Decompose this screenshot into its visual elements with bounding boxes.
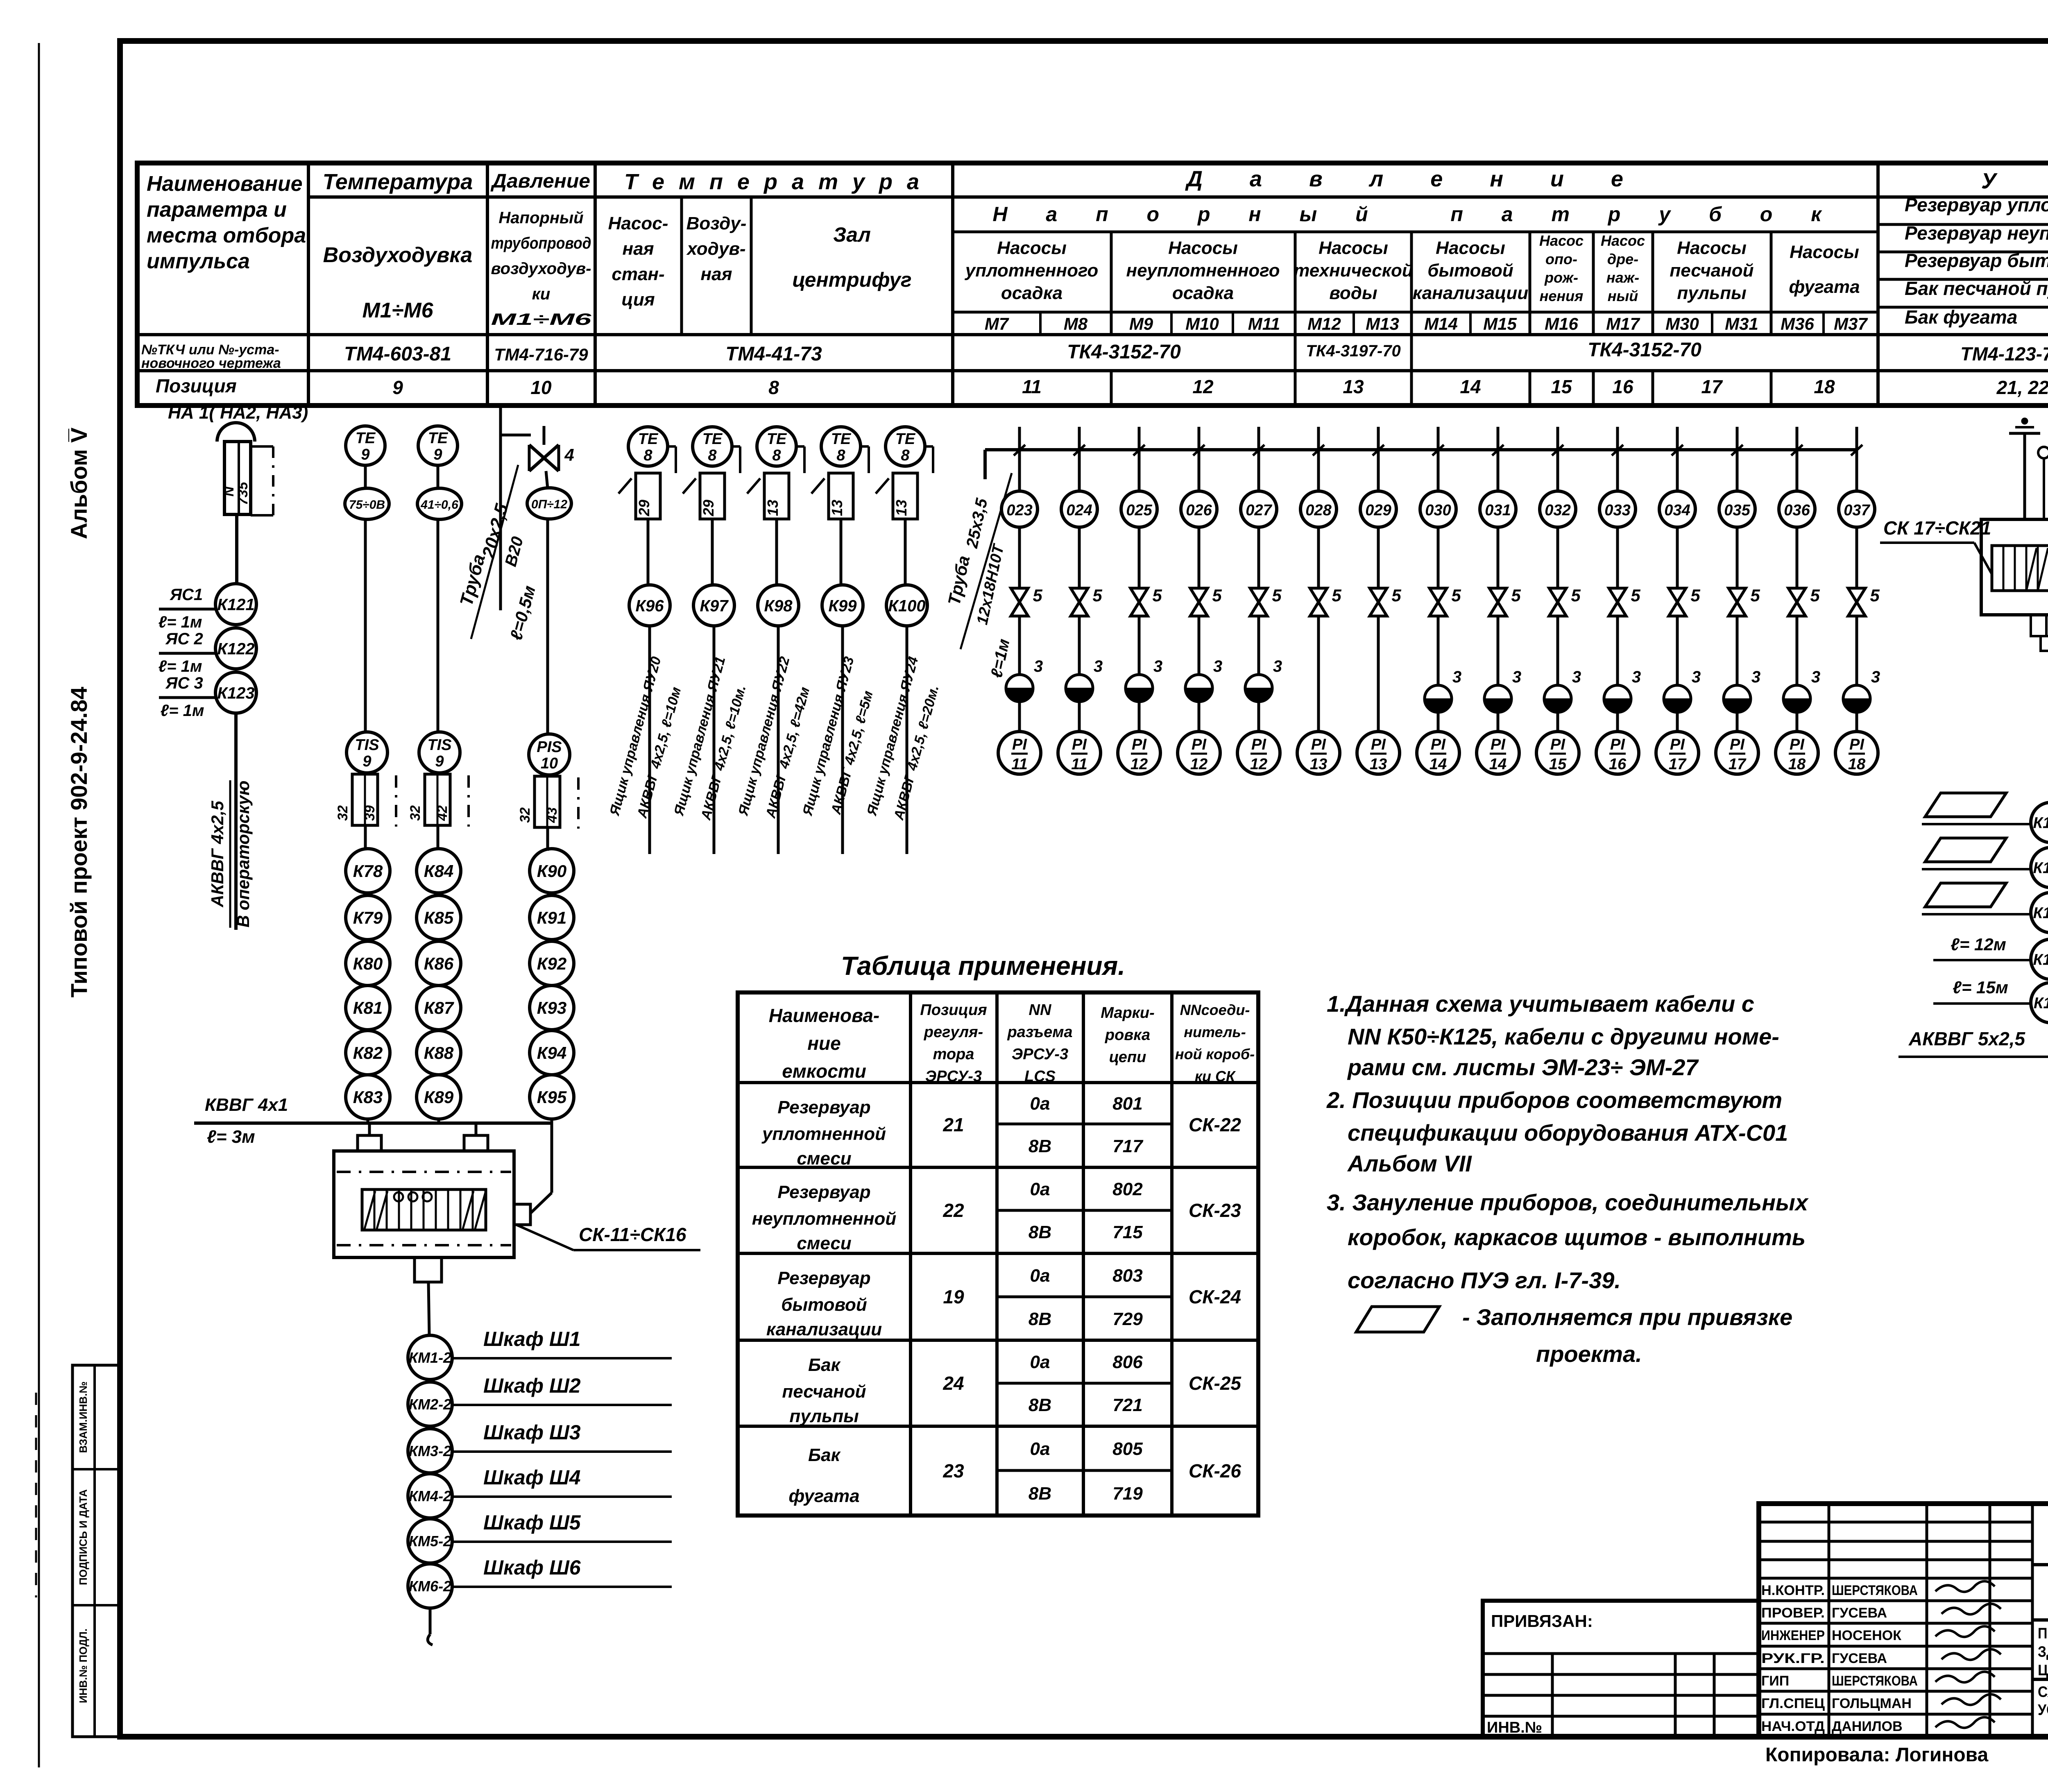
- wire YaS1 to K121: [159, 608, 215, 611]
- instrument TE9 column 1: [346, 426, 385, 465]
- table column line nasos stanciya: [680, 197, 683, 335]
- svg-text:Наименование: Наименование: [147, 172, 303, 196]
- svg-text:23: 23: [942, 1460, 964, 1482]
- svg-text:3: 3: [1512, 668, 1521, 686]
- wire to valve: [1497, 527, 1500, 588]
- svg-text:3: 3: [1094, 657, 1103, 675]
- wire box to K9x: [904, 519, 907, 585]
- svg-text:11: 11: [1022, 376, 1042, 397]
- svg-text:ки СК: ки СК: [1195, 1068, 1236, 1085]
- position circle 027: [1241, 491, 1277, 527]
- svg-text:спецификации оборудования АТХ-: спецификации оборудования АТХ-С01: [1348, 1120, 1788, 1146]
- svg-text:НА 1( НА2, НА3): НА 1( НА2, НА3): [168, 403, 308, 423]
- wire bus to circle 035: [1736, 450, 1739, 491]
- svg-text:TIS: TIS: [355, 736, 379, 754]
- svg-text:ТМ4-603-81: ТМ4-603-81: [344, 343, 451, 365]
- svg-text:028: 028: [1305, 502, 1332, 519]
- svg-text:719: 719: [1112, 1484, 1143, 1504]
- svg-text:13: 13: [1343, 376, 1364, 397]
- svg-text:0П÷12: 0П÷12: [531, 498, 567, 511]
- signature squiggle 3: [1935, 1626, 1995, 1637]
- svg-text:опо-: опо-: [1545, 251, 1577, 267]
- position circle 033: [1599, 491, 1636, 527]
- impulse column 024 stub above bus: [1078, 427, 1081, 450]
- svg-text:8В: 8В: [1029, 1222, 1051, 1242]
- pressure gauge PI 18: [1835, 732, 1878, 774]
- svg-text:М11: М11: [1248, 314, 1280, 333]
- svg-text:16: 16: [1612, 376, 1633, 397]
- wire separator to PI: [1616, 712, 1619, 732]
- cable circle К87: [417, 985, 461, 1030]
- application table sub row lines: [997, 1123, 1172, 1126]
- svg-text:В операторскую: В операторскую: [233, 781, 253, 928]
- svg-text:Шкаф Ш6: Шкаф Ш6: [483, 1556, 581, 1579]
- SK17 box inner strip: [1992, 546, 2048, 591]
- wire to shkaf Sh4: [452, 1495, 672, 1498]
- svg-text:фугата: фугата: [788, 1486, 859, 1506]
- svg-text:ЦЕНТРИФУГАМИ ОГШ-631К-02: ЦЕНТРИФУГАМИ ОГШ-631К-02: [2038, 1662, 2048, 1679]
- cable circle КМ2-2: [408, 1382, 452, 1426]
- svg-text:ТЕ: ТЕ: [767, 430, 787, 448]
- application table row lines: [738, 1166, 1258, 1169]
- svg-text:18: 18: [1848, 756, 1866, 773]
- svg-text:0а: 0а: [1030, 1352, 1050, 1372]
- svg-text:Давление: Давление: [490, 170, 590, 192]
- svg-text:17: 17: [1669, 756, 1687, 773]
- wire to valve: [1078, 527, 1081, 588]
- cable circle К100: [886, 585, 927, 626]
- svg-text:8: 8: [708, 447, 717, 464]
- svg-text:ТМ4-123-74, ТМ4-132-74: ТМ4-123-74, ТМ4-132-74: [1960, 343, 2048, 365]
- cable circle К99: [822, 585, 863, 626]
- svg-text:PI: PI: [1012, 736, 1027, 753]
- position circle 035: [1719, 491, 1755, 527]
- impulse column 036 stub above bus: [1796, 427, 1799, 450]
- svg-text:036: 036: [1784, 502, 1810, 519]
- svg-text:TIS: TIS: [427, 736, 451, 754]
- svg-text:новочного чертежа: новочного чертежа: [141, 356, 281, 371]
- svg-text:ТМ4-716-79: ТМ4-716-79: [494, 345, 588, 364]
- separator vessel column 031: [1484, 685, 1511, 712]
- svg-text:ЯС1: ЯС1: [170, 586, 203, 604]
- svg-text:РУК.ГР.: РУК.ГР.: [1761, 1651, 1825, 1666]
- svg-text:ходув-: ходув-: [686, 239, 745, 259]
- cable circle К90: [530, 849, 574, 893]
- svg-text:пульпы: пульпы: [1677, 283, 1746, 303]
- svg-text:Шкаф Ш3: Шкаф Ш3: [483, 1421, 581, 1444]
- table column line temperature right: [486, 197, 489, 406]
- svg-text:5: 5: [1750, 586, 1760, 605]
- position circle 032: [1540, 491, 1576, 527]
- cable circle К78: [346, 849, 390, 893]
- svg-text:ТЕ: ТЕ: [895, 430, 916, 448]
- svg-text:14: 14: [1460, 376, 1481, 397]
- cable circle К91: [530, 895, 574, 940]
- svg-text:У р о в е н ь: У р о в е н ь: [1981, 169, 2048, 193]
- svg-text:9: 9: [361, 446, 369, 463]
- wire valve to separator: [1138, 616, 1141, 675]
- cable circle K121: [215, 584, 256, 625]
- svg-text:М7: М7: [985, 314, 1009, 333]
- svg-text:Температура: Температура: [323, 170, 473, 194]
- svg-text:ПРОИЗВОДСТВЕННО-ВСПОМОГАТЕЛЬНО: ПРОИЗВОДСТВЕННО-ВСПОМОГАТЕЛЬНОЕ: [2038, 1625, 2048, 1642]
- svg-text:ТЕ: ТЕ: [831, 430, 852, 448]
- impulse column 026 stub above bus: [1198, 427, 1201, 450]
- svg-text:НАЧ.ОТД: НАЧ.ОТД: [1761, 1719, 1825, 1734]
- svg-text:13: 13: [1310, 756, 1327, 773]
- svg-text:8: 8: [901, 447, 910, 464]
- wire separator to PI: [1736, 712, 1739, 732]
- svg-text:уплотненного: уплотненного: [965, 261, 1098, 281]
- wire separator to PI: [1497, 712, 1500, 732]
- wire box to K9x: [711, 519, 714, 585]
- svg-text:М8: М8: [1064, 314, 1088, 333]
- svg-text:11: 11: [1071, 756, 1087, 773]
- position circle 024: [1061, 491, 1097, 527]
- separator vessel column 035: [1724, 685, 1751, 712]
- svg-text:АКВВГ 4х2,5: АКВВГ 4х2,5: [208, 801, 227, 908]
- svg-text:Марки-: Марки-: [1101, 1004, 1155, 1022]
- svg-text:Альбом V̅: Альбом V̅: [66, 428, 92, 539]
- svg-text:параметра и: параметра и: [147, 198, 287, 222]
- wire to shkaf Sh6: [452, 1586, 672, 1588]
- position circle 025: [1121, 491, 1157, 527]
- svg-text:СК-23: СК-23: [1189, 1200, 1241, 1221]
- pipe line from table to valve PIS: [499, 406, 502, 435]
- svg-text:К85: К85: [424, 908, 454, 927]
- svg-text:PI: PI: [1371, 736, 1386, 753]
- impulse column 031 stub above bus: [1497, 427, 1500, 450]
- wire separator to PI: [1018, 702, 1021, 732]
- svg-text:17: 17: [1729, 756, 1747, 773]
- svg-text:бытовой: бытовой: [781, 1295, 867, 1315]
- impulse column 034 stub above bus: [1676, 427, 1679, 450]
- svg-text:12: 12: [1250, 756, 1267, 773]
- wire to valve: [1018, 527, 1021, 588]
- junction box SK-11..SK16 top tabs: [358, 1135, 381, 1151]
- cable box 32/43: [535, 776, 560, 827]
- svg-text:канализации: канализации: [1413, 283, 1528, 303]
- svg-text:регуля-: регуля-: [924, 1024, 983, 1041]
- svg-text:М37: М37: [1834, 314, 1868, 333]
- svg-text:10: 10: [530, 377, 552, 398]
- impulse column 027 stub above bus: [1257, 427, 1260, 450]
- svg-text:5: 5: [1092, 586, 1102, 605]
- svg-text:Насос-: Насос-: [608, 213, 668, 233]
- separator vessel column 026: [1185, 675, 1212, 702]
- pressure gauge PI 11: [998, 732, 1041, 774]
- svg-text:М10: М10: [1185, 314, 1219, 333]
- svg-text:Насосы: Насосы: [1677, 238, 1747, 258]
- svg-text:3: 3: [1572, 668, 1581, 686]
- svg-text:ция: ция: [621, 290, 655, 310]
- svg-text:22: 22: [942, 1200, 964, 1221]
- wire valve to PI: [1317, 616, 1320, 732]
- instrument TE8 column 4: [821, 427, 861, 466]
- svg-text:импульса: импульса: [147, 249, 250, 273]
- svg-text:ровка: ровка: [1105, 1026, 1150, 1044]
- svg-text:24: 24: [942, 1373, 964, 1394]
- tick mark: [876, 478, 889, 494]
- valve column 037: [1848, 588, 1865, 616]
- title block left verticals: [1828, 1504, 1831, 1737]
- svg-text:3: 3: [1811, 668, 1820, 686]
- wire valve to separator: [1018, 616, 1021, 675]
- wire separator to PI: [1556, 712, 1559, 732]
- svg-text:11: 11: [1011, 756, 1027, 773]
- svg-text:ЭРСУ-3: ЭРСУ-3: [925, 1068, 982, 1085]
- svg-text:Наименова-: Наименова-: [769, 1005, 879, 1026]
- valve column 023: [1011, 588, 1028, 616]
- impulse column 035 stub above bus: [1736, 427, 1739, 450]
- svg-text:39: 39: [362, 805, 378, 821]
- valve column 036: [1788, 588, 1806, 616]
- application table outline: [738, 992, 1258, 1516]
- wires K83/K89/K95 to bus: [367, 1119, 369, 1123]
- bracket TE8 to box: [925, 445, 933, 448]
- wire K123 down to operator room: [234, 713, 238, 930]
- cable circle К88: [417, 1031, 461, 1075]
- wire to valve: [1676, 527, 1679, 588]
- svg-text:Позиция: Позиция: [920, 1001, 987, 1019]
- svg-text:ℓ= 1м: ℓ= 1м: [159, 613, 202, 631]
- cable circle К83: [346, 1075, 390, 1119]
- cable circle К93: [530, 985, 574, 1030]
- svg-text:Резервуар: Резервуар: [777, 1182, 870, 1202]
- title block outline: [1759, 1504, 2048, 1737]
- svg-text:8: 8: [772, 447, 781, 464]
- svg-text:- Заполняется при привязке: - Заполняется при привязке: [1462, 1304, 1792, 1330]
- table column line vozduhoduvnaya: [750, 197, 753, 335]
- junction box SK-11..SK16 outline: [334, 1151, 514, 1257]
- svg-text:29: 29: [700, 500, 717, 517]
- svg-text:14: 14: [1430, 756, 1447, 773]
- wire valve to separator: [1257, 616, 1260, 675]
- outer left border line: [38, 43, 40, 1767]
- svg-text:неуплотненной: неуплотненной: [752, 1209, 897, 1229]
- wire to valve: [1317, 527, 1320, 588]
- svg-text:5: 5: [1212, 586, 1222, 605]
- wire K9x down with label: [906, 626, 908, 854]
- signature squiggle 5: [1935, 1672, 1995, 1682]
- svg-text:806: 806: [1112, 1352, 1143, 1372]
- wire bus to circle 030: [1437, 450, 1440, 491]
- wire to valve: [1796, 527, 1799, 588]
- svg-text:5: 5: [1631, 586, 1640, 605]
- pressure gauge PI 15: [1536, 732, 1579, 774]
- svg-text:PI: PI: [1491, 736, 1506, 753]
- svg-text:5: 5: [1332, 586, 1341, 605]
- svg-text:3: 3: [1273, 657, 1282, 675]
- svg-text:ТЕ: ТЕ: [702, 430, 723, 448]
- svg-text:ЭРСУ-3: ЭРСУ-3: [1012, 1046, 1068, 1063]
- svg-text:16: 16: [1609, 756, 1627, 773]
- wire K9x down with label: [777, 626, 780, 854]
- svg-text:М30: М30: [1665, 314, 1699, 333]
- wire YaS2 to K122: [159, 652, 215, 655]
- svg-text:19: 19: [943, 1286, 964, 1307]
- wire separator to PI: [1676, 712, 1679, 732]
- instrument TIS9 column 1: [347, 732, 387, 773]
- wire valve to separator: [1078, 616, 1081, 675]
- valve X symbol col PIS: [529, 445, 559, 471]
- table row line header bottom: [308, 195, 2048, 199]
- svg-text:фугата: фугата: [1789, 277, 1860, 297]
- svg-text:осадка: осадка: [1001, 283, 1063, 303]
- svg-text:3: 3: [1452, 668, 1461, 686]
- ground symbol above SK17 box: [2022, 419, 2027, 424]
- svg-text:3: 3: [1153, 657, 1162, 675]
- wire box to K9x: [647, 519, 650, 585]
- svg-text:PI: PI: [1610, 736, 1625, 753]
- svg-text:М14: М14: [1424, 314, 1458, 333]
- privyazan grid: [1483, 1652, 1759, 1655]
- svg-text:Насосы: Насосы: [1436, 238, 1505, 258]
- svg-text:ТК4-3152-70: ТК4-3152-70: [1067, 341, 1181, 363]
- application table header line: [738, 1081, 1258, 1084]
- svg-text:21: 21: [942, 1114, 964, 1135]
- svg-text:бытовой: бытовой: [1427, 261, 1513, 281]
- wire to valve: [1855, 527, 1858, 588]
- wire bus to circle 037: [1855, 450, 1858, 491]
- svg-text:3: 3: [1034, 657, 1043, 675]
- svg-text:осадка: осадка: [1172, 283, 1234, 303]
- svg-text:3: 3: [1871, 668, 1880, 686]
- cable circle К110: [2031, 983, 2048, 1023]
- svg-text:Т е м п е р а т у р а: Т е м п е р а т у р а: [624, 170, 923, 194]
- svg-text:ИНВ.№: ИНВ.№: [1487, 1719, 1542, 1736]
- separator vessel column 023: [1006, 675, 1033, 702]
- tick mark: [811, 478, 825, 494]
- impulse pipe bus: [985, 448, 1857, 451]
- pressure gauge PI 18: [1776, 732, 1818, 774]
- valve column 034: [1669, 588, 1686, 616]
- svg-text:8В: 8В: [1029, 1484, 1051, 1504]
- svg-text:12: 12: [1192, 376, 1214, 397]
- wire valve to separator: [1676, 616, 1679, 685]
- svg-text:PI: PI: [1132, 736, 1147, 753]
- svg-text:ние: ние: [807, 1033, 840, 1054]
- cable circle К81: [346, 985, 390, 1030]
- svg-text:К93: К93: [537, 998, 567, 1017]
- svg-text:5: 5: [1451, 586, 1461, 605]
- cable box TE8: [636, 473, 660, 519]
- svg-text:М36: М36: [1781, 314, 1814, 333]
- cable circle К92: [530, 941, 574, 985]
- wire valve to separator: [1556, 616, 1559, 685]
- svg-text:К92: К92: [537, 954, 567, 973]
- cable circle К86: [417, 941, 461, 985]
- svg-text:песчаной: песчаной: [782, 1382, 866, 1402]
- svg-text:037: 037: [1844, 502, 1870, 519]
- actuator NA1 dash bracket: [251, 445, 273, 448]
- svg-text:9: 9: [392, 377, 403, 398]
- svg-text:ИНВ.№ ПОДЛ.: ИНВ.№ ПОДЛ.: [77, 1629, 89, 1703]
- instrument TE8 column 2: [693, 427, 732, 466]
- svg-text:8В: 8В: [1029, 1395, 1051, 1415]
- tick mark: [618, 478, 632, 494]
- wire TIS box to K-chain: [437, 825, 440, 849]
- separator vessel column 032: [1544, 685, 1571, 712]
- svg-text:разъема: разъема: [1007, 1024, 1072, 1041]
- stamp box column: [72, 1365, 121, 1737]
- svg-text:031: 031: [1485, 502, 1511, 519]
- svg-text:033: 033: [1604, 502, 1630, 519]
- svg-text:8: 8: [768, 377, 779, 398]
- pressure gauge PI 17: [1656, 732, 1699, 774]
- signature squiggle 7: [1935, 1717, 1995, 1728]
- svg-text:5: 5: [1033, 586, 1042, 605]
- actuator NA1 body box N/735: [224, 442, 251, 514]
- wire bus to circle 033: [1616, 450, 1619, 491]
- table row line TKCh bottom: [137, 369, 2048, 372]
- svg-text:Шкаф Ш4: Шкаф Ш4: [483, 1466, 581, 1489]
- svg-text:Насос: Насос: [1601, 232, 1645, 249]
- svg-text:Шкаф Ш1: Шкаф Ш1: [483, 1328, 581, 1350]
- svg-text:коробок, каркасов щитов - выпо: коробок, каркасов щитов - выполнить: [1348, 1224, 1806, 1250]
- uroven row lines: [1878, 223, 2048, 226]
- svg-text:АКВВГ 5х2,5: АКВВГ 5х2,5: [1908, 1028, 2025, 1049]
- svg-text:026: 026: [1186, 502, 1212, 519]
- cable circle К98: [758, 585, 799, 626]
- range oval PIS: [527, 488, 571, 519]
- svg-text:PI: PI: [1192, 736, 1207, 753]
- svg-text:Типовой проект 902-9-24.84: Типовой проект 902-9-24.84: [66, 687, 92, 998]
- svg-text:пульпы: пульпы: [789, 1406, 859, 1426]
- svg-text:КМ6-2: КМ6-2: [409, 1578, 451, 1595]
- tick mark: [747, 478, 760, 494]
- svg-text:ЯС 2: ЯС 2: [165, 630, 203, 648]
- valve column 027: [1250, 588, 1267, 616]
- terminal circles on SK17 box: [2038, 447, 2048, 458]
- svg-text:PI: PI: [1790, 736, 1805, 753]
- M cell dividers: [1039, 312, 1042, 335]
- title block scheme name line: [2032, 1678, 2048, 1681]
- wire box to K9x: [840, 519, 843, 585]
- svg-text:9: 9: [435, 753, 444, 770]
- svg-text:К96: К96: [635, 597, 664, 615]
- pressure gauge PI 17: [1716, 732, 1758, 774]
- wire separator to PI: [1138, 702, 1141, 732]
- svg-text:PI: PI: [1251, 736, 1266, 753]
- top table outer border: [137, 163, 2048, 406]
- cable box 32/xx: [425, 774, 450, 825]
- svg-text:Резервуар неуплотненной смес: Резервуар неуплотненной смеси: [1905, 222, 2048, 244]
- svg-text:13: 13: [764, 500, 781, 516]
- svg-text:Насосы: Насосы: [1790, 242, 1859, 262]
- svg-text:КМ5-2: КМ5-2: [409, 1533, 451, 1550]
- svg-text:К84: К84: [424, 861, 454, 881]
- svg-text:5: 5: [1870, 586, 1880, 605]
- wire bus to circle 036: [1796, 450, 1799, 491]
- svg-text:тора: тора: [933, 1046, 974, 1063]
- cable circle К84: [417, 849, 461, 893]
- svg-text:М13: М13: [1366, 314, 1399, 333]
- svg-text:ПРИВЯЗАН:: ПРИВЯЗАН:: [1491, 1611, 1593, 1631]
- svg-text:дре-: дре-: [1607, 251, 1638, 267]
- pressure TKCh dividers: [1294, 335, 1297, 371]
- svg-text:ℓ= 3м: ℓ= 3м: [207, 1127, 255, 1147]
- separator vessel column 034: [1664, 685, 1691, 712]
- svg-text:СХЕМА ПОДКЛЮЧЕНИЯ ПРИБОРОВ И: СХЕМА ПОДКЛЮЧЕНИЯ ПРИБОРОВ И: [2038, 1683, 2048, 1700]
- wire YaS3 to K123: [159, 696, 215, 699]
- svg-text:13: 13: [829, 500, 845, 516]
- svg-text:42: 42: [435, 805, 450, 821]
- svg-text:КМ3-2: КМ3-2: [409, 1443, 451, 1459]
- svg-text:КВВГ 4х1: КВВГ 4х1: [205, 1095, 288, 1115]
- svg-text:030: 030: [1425, 502, 1451, 519]
- svg-text:места отбора: места отбора: [147, 224, 306, 247]
